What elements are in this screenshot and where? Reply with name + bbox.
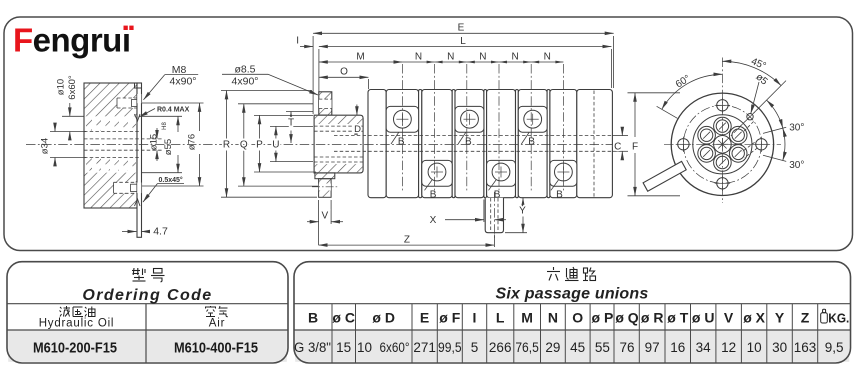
- svg-text:10: 10: [357, 340, 372, 355]
- svg-text:L: L: [496, 309, 505, 325]
- svg-text:30°: 30°: [789, 123, 804, 134]
- svg-text:ø F: ø F: [439, 309, 460, 325]
- svg-text:B: B: [308, 309, 318, 325]
- svg-text:C: C: [614, 142, 621, 153]
- svg-text:Q: Q: [240, 140, 248, 151]
- svg-text:ø76: ø76: [187, 134, 198, 150]
- svg-text:ø15: ø15: [149, 134, 160, 150]
- svg-text:B: B: [398, 137, 405, 148]
- svg-text:F: F: [632, 142, 638, 153]
- svg-text:E: E: [458, 23, 465, 34]
- svg-text:163: 163: [794, 340, 817, 355]
- svg-text:T: T: [288, 118, 294, 129]
- svg-text:4.7: 4.7: [153, 226, 168, 238]
- svg-text:10: 10: [747, 340, 762, 355]
- svg-text:76,5: 76,5: [515, 340, 539, 355]
- svg-text:6x60°: 6x60°: [67, 75, 78, 100]
- svg-text:H8: H8: [162, 122, 168, 130]
- svg-text:D: D: [354, 124, 361, 135]
- svg-text:Air: Air: [209, 318, 225, 330]
- svg-text:P: P: [256, 140, 263, 151]
- svg-text:Hydraulic Oil: Hydraulic Oil: [39, 318, 115, 330]
- svg-text:X: X: [430, 215, 437, 226]
- svg-text:O: O: [340, 67, 348, 78]
- svg-text:0.5x45°: 0.5x45°: [159, 176, 183, 184]
- svg-text:M8: M8: [172, 64, 187, 76]
- svg-text:97: 97: [645, 340, 660, 355]
- svg-text:M610-400-F15: M610-400-F15: [174, 340, 258, 357]
- svg-text:5: 5: [471, 340, 479, 355]
- svg-text:ø Q: ø Q: [615, 309, 638, 325]
- svg-text:4x90°: 4x90°: [232, 75, 259, 87]
- svg-text:Ordering Code: Ordering Code: [82, 287, 212, 304]
- svg-text:O: O: [572, 309, 583, 325]
- svg-text:KG.: KG.: [828, 311, 849, 326]
- svg-text:4x90°: 4x90°: [170, 75, 197, 87]
- svg-text:ø P: ø P: [592, 309, 614, 325]
- svg-text:M610-200-F15: M610-200-F15: [33, 340, 117, 357]
- svg-text:ø T: ø T: [667, 309, 688, 325]
- svg-text:V: V: [724, 309, 734, 325]
- svg-text:G 3/8": G 3/8": [294, 340, 331, 355]
- svg-text:B: B: [430, 189, 437, 200]
- svg-text:ø X: ø X: [743, 309, 765, 325]
- svg-text:45°: 45°: [749, 56, 767, 72]
- svg-text:30°: 30°: [789, 160, 804, 171]
- svg-text:N: N: [548, 309, 558, 325]
- svg-text:60°: 60°: [674, 73, 693, 90]
- svg-text:12: 12: [721, 340, 736, 355]
- svg-text:ø8.5: ø8.5: [234, 64, 255, 76]
- svg-text:B: B: [556, 189, 563, 200]
- svg-text:I: I: [296, 36, 299, 47]
- svg-text:Y: Y: [519, 206, 526, 217]
- svg-text:V: V: [321, 211, 328, 222]
- svg-text:I: I: [473, 309, 477, 325]
- svg-text:76: 76: [619, 340, 634, 355]
- svg-text:ø34: ø34: [40, 138, 51, 154]
- svg-text:B: B: [528, 137, 535, 148]
- svg-text:266: 266: [489, 340, 512, 355]
- svg-text:Fengruı: Fengruı: [13, 22, 131, 59]
- svg-text:29: 29: [545, 340, 560, 355]
- svg-text:55: 55: [595, 340, 610, 355]
- svg-text:M: M: [521, 309, 533, 325]
- svg-text:16: 16: [670, 340, 685, 355]
- svg-text:Z: Z: [404, 235, 410, 246]
- svg-text:R: R: [223, 140, 230, 151]
- svg-text:6x60°: 6x60°: [380, 340, 410, 355]
- svg-text:L: L: [460, 36, 466, 47]
- svg-text:B: B: [465, 137, 472, 148]
- svg-text:M: M: [356, 52, 364, 63]
- svg-text:34: 34: [696, 340, 712, 355]
- svg-text:E: E: [420, 309, 429, 325]
- svg-text:N: N: [415, 52, 422, 63]
- svg-text:15: 15: [336, 340, 351, 355]
- svg-text:271: 271: [413, 340, 436, 355]
- svg-text:99,5: 99,5: [438, 340, 462, 355]
- svg-text:N: N: [447, 52, 454, 63]
- svg-text:ø C: ø C: [332, 309, 355, 325]
- svg-text:U: U: [272, 140, 279, 151]
- svg-text:45: 45: [570, 340, 585, 355]
- svg-text:ø55: ø55: [163, 139, 174, 155]
- svg-text:9,5: 9,5: [825, 340, 844, 355]
- svg-text:ø D: ø D: [372, 309, 395, 325]
- svg-text:Six passage unions: Six passage unions: [496, 285, 649, 302]
- svg-text:Z: Z: [801, 309, 810, 325]
- svg-text:ø10: ø10: [56, 79, 67, 95]
- svg-text:N: N: [511, 52, 518, 63]
- svg-text:Y: Y: [775, 309, 785, 325]
- svg-text:ø R: ø R: [641, 309, 664, 325]
- svg-text:30: 30: [772, 340, 787, 355]
- svg-text:R0.4 MAX: R0.4 MAX: [157, 107, 190, 114]
- svg-text:N: N: [479, 52, 486, 63]
- svg-text:ø U: ø U: [692, 309, 715, 325]
- svg-text:N: N: [544, 52, 551, 63]
